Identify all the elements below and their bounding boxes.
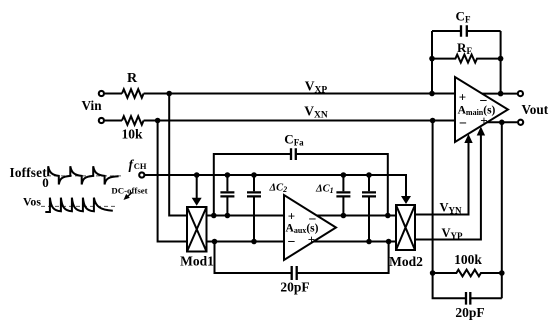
Ioffset waveform baseline <box>47 175 123 177</box>
svg-text:R: R <box>127 71 138 86</box>
svg-text:+: + <box>308 232 315 247</box>
label VYP <box>441 226 463 241</box>
svg-text:CH: CH <box>134 161 147 171</box>
node feedback-VXP <box>429 91 435 97</box>
label Vos <box>23 194 41 208</box>
Vos waveform <box>45 198 113 212</box>
modulator Mod2 <box>389 205 423 269</box>
svg-text:+: + <box>459 89 466 104</box>
node RF right <box>498 56 504 62</box>
svg-text:Vout: Vout <box>522 102 549 117</box>
label Vin <box>82 98 103 113</box>
capacitor dC1b <box>362 175 376 242</box>
resistor 100k <box>433 252 502 276</box>
capacitor CFa feedback loop <box>214 132 388 216</box>
label dC1 <box>315 184 334 196</box>
wire Mod1 to Aaux lower <box>207 241 285 243</box>
node cap dC1a bottom <box>341 213 347 219</box>
input terminal Vin+ <box>99 91 104 96</box>
resistor R <box>122 71 144 98</box>
svg-text:0: 0 <box>42 175 49 190</box>
wire VXN line from resistor 10k to Amain - input <box>105 120 456 122</box>
svg-text:+: + <box>480 113 487 128</box>
node CFa left <box>211 213 217 219</box>
wire VXP to Mod1 upper input <box>169 94 187 216</box>
node CFa right <box>385 213 391 219</box>
op-amp Amain <box>455 77 508 142</box>
label dC2 <box>269 183 288 195</box>
Ioffset waveform <box>48 166 118 184</box>
label VYN <box>439 201 462 216</box>
svg-text:Mod1: Mod1 <box>180 254 214 269</box>
capacitor 20pF aux loop <box>215 242 389 295</box>
label VXP <box>305 79 328 96</box>
wire VXP line from resistor R to Amain + input <box>105 93 456 95</box>
wire Mod1 to Aaux upper <box>207 215 285 217</box>
node clock-cap taps <box>225 172 372 178</box>
svg-text:Vos: Vos <box>23 194 41 208</box>
node top output <box>498 91 504 97</box>
node VXP junction <box>166 91 172 97</box>
wire VXN to Mod1 lower input <box>158 121 187 242</box>
node 20pF right <box>386 239 392 245</box>
wire clock drop to Mod1 <box>196 175 198 200</box>
wire Aaux lower output to Mod2 <box>312 241 396 243</box>
arrowhead VYN into Amain <box>464 134 472 143</box>
svg-text:20pF: 20pF <box>455 305 484 320</box>
svg-text:ΔC1: ΔC1 <box>315 184 334 196</box>
wire VXN node down to 100k network <box>432 121 434 274</box>
svg-text:100k: 100k <box>454 252 482 267</box>
wire VYN from Mod2 to Amain arrow <box>415 140 469 215</box>
node cap dC2a bottom <box>225 213 231 219</box>
modulator Mod1 <box>180 207 214 269</box>
input terminal Vin- <box>99 118 104 123</box>
output terminal Vout- <box>518 120 523 125</box>
capacitor dC2a top stub <box>220 175 234 216</box>
Vos waveform baseline <box>41 205 117 207</box>
capacitor dC2b <box>247 175 261 242</box>
label 0 <box>42 175 49 190</box>
wire Aaux upper output to Mod2 <box>315 215 396 217</box>
wire CF loop left vertical <box>431 31 433 94</box>
svg-text:Mod2: Mod2 <box>389 254 423 269</box>
op-amp Aaux <box>284 195 336 260</box>
label Vout <box>522 102 549 117</box>
node fCH-Mod1 branch <box>194 172 200 178</box>
arrowhead into Mod2 <box>401 196 411 204</box>
wire Amain bottom output <box>486 121 517 123</box>
capacitor 20pF output loop <box>433 273 502 320</box>
node RF left <box>429 56 435 62</box>
svg-text:−: − <box>288 235 296 250</box>
label VXN <box>304 104 328 121</box>
label Ioffset <box>10 165 48 180</box>
output terminal Vout+ <box>518 91 523 96</box>
wire Amain top output <box>482 93 517 95</box>
wire bottom output down to 100k network <box>501 122 503 273</box>
node bottom output <box>499 120 505 126</box>
arrowhead VYP into Amain <box>477 127 485 136</box>
svg-text:Vin: Vin <box>82 98 103 113</box>
svg-text:10k: 10k <box>121 127 143 142</box>
node VXN tap <box>430 118 436 124</box>
label 10k <box>121 127 143 142</box>
label DC-offset <box>111 186 147 196</box>
svg-text:−: − <box>459 117 467 132</box>
svg-text:ΔC2: ΔC2 <box>269 183 288 195</box>
node 100k left <box>430 270 436 276</box>
input terminal fCH <box>129 157 147 178</box>
capacitor dC1a <box>336 175 350 216</box>
wire fCH clock line to Mod2 <box>145 175 406 199</box>
resistor 10k <box>122 116 144 125</box>
arrowhead into Mod1 <box>192 198 202 206</box>
node 100k right <box>499 270 505 276</box>
node 20pF left <box>212 239 218 245</box>
wire CF loop right vertical <box>500 31 502 94</box>
node cap dC1b bottom <box>366 239 372 245</box>
wire VYP from Mod2 to Amain arrow <box>415 133 481 240</box>
arrow DC-offset <box>124 193 133 201</box>
capacitor CF <box>432 9 501 37</box>
svg-text:+: + <box>288 208 295 223</box>
node VXN junction <box>155 118 161 124</box>
svg-text:20pF: 20pF <box>280 280 309 295</box>
node cap dC2b bottom <box>251 239 257 245</box>
resistor RF <box>432 40 501 63</box>
